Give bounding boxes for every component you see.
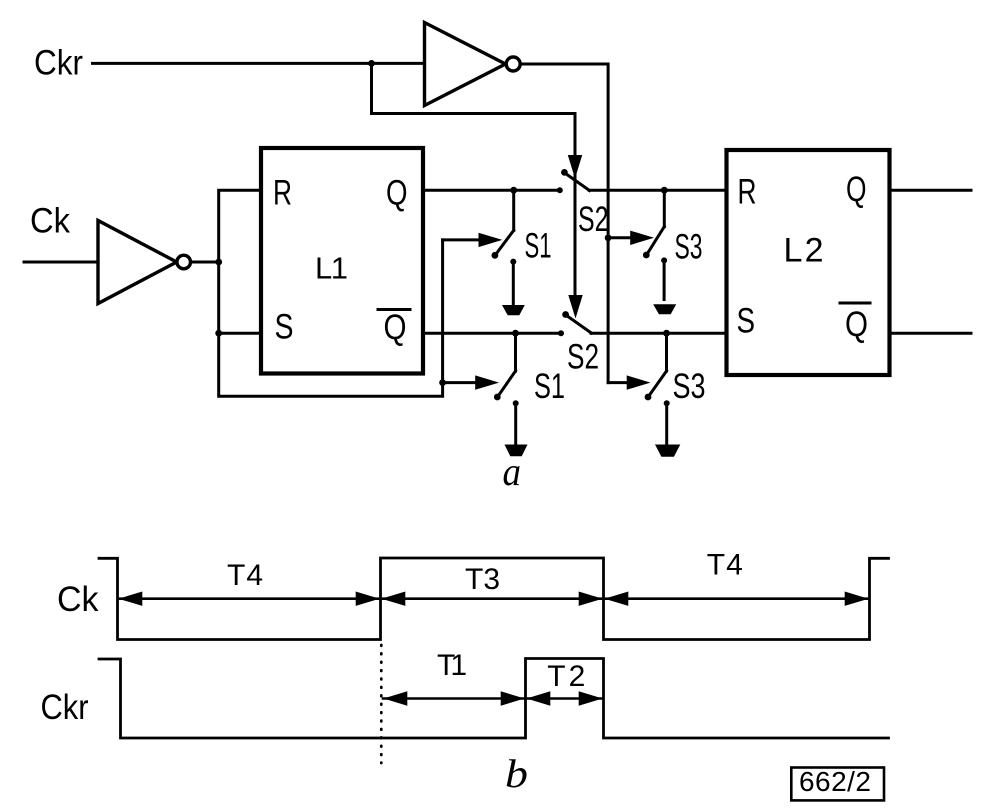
ground S3 upper (653, 304, 676, 314)
svg-text:Q: Q (384, 308, 407, 347)
svg-text:R: R (738, 173, 757, 212)
wire Q row of L1 (423, 189, 560, 192)
svg-text:S1: S1 (534, 367, 565, 406)
svg-text:T4: T4 (227, 559, 263, 592)
node S2 lower open contact (558, 330, 564, 336)
svg-text:a: a (503, 449, 522, 494)
node S2 upper open contact (557, 187, 563, 193)
node S row junction (215, 330, 222, 337)
arrow S2 upper control (568, 155, 582, 179)
arrow S3 lower control (608, 375, 650, 389)
switch S1 upper (492, 190, 517, 304)
dimension arrow T4 right (605, 592, 869, 606)
node Q row S3 junction (661, 187, 668, 194)
node Qbar row S3 junction (663, 330, 670, 337)
node U2 output junction (215, 259, 222, 266)
svg-text:Ck: Ck (57, 580, 99, 619)
arrow S3 upper control (608, 231, 654, 245)
switch S2 upper blade (561, 169, 590, 191)
label T4 right (707, 549, 743, 582)
wire Ckr control to S2 switches (372, 63, 576, 311)
switch S3 lower (645, 333, 670, 443)
dimension arrow T2 (527, 691, 603, 705)
waveform Ckr (99, 659, 889, 739)
switch S3 upper (643, 190, 667, 299)
svg-text:L1: L1 (315, 251, 348, 286)
svg-text:S2: S2 (578, 200, 609, 239)
arrow S1 lower control (443, 375, 499, 389)
label S3 upper (675, 228, 703, 267)
inverter U1 (Ckr) (425, 23, 521, 106)
svg-text:662/2: 662/2 (799, 766, 871, 797)
arrow S1 upper control (443, 233, 503, 247)
label S3 lower (673, 367, 706, 406)
svg-text:S: S (737, 302, 756, 341)
label T3 (465, 563, 500, 596)
signal label Ck (57, 580, 99, 619)
ground S1 lower (505, 445, 528, 457)
svg-text:Q: Q (845, 305, 868, 344)
wire U2 output (191, 261, 219, 264)
label T2 (547, 660, 585, 693)
wire Q row to L2 R (589, 189, 726, 192)
wire Ck input (24, 261, 98, 264)
latch L1 (261, 148, 423, 374)
label S2 upper (578, 200, 609, 239)
wire Qbar output of L2 (890, 332, 972, 335)
svg-text:T4: T4 (707, 549, 743, 582)
svg-text:S3: S3 (675, 228, 703, 267)
svg-text:Ck: Ck (30, 202, 70, 241)
svg-text:S2: S2 (567, 338, 599, 377)
wire U1 output to vertical bus (520, 64, 608, 383)
ground S3 lower (655, 445, 680, 457)
svg-text:S1: S1 (525, 227, 552, 266)
waveform Ck (99, 558, 889, 640)
wire S pin stub (219, 332, 261, 335)
svg-text:T3: T3 (465, 563, 500, 596)
wire Q output of L2 (890, 189, 972, 192)
latch L2 (727, 150, 890, 375)
dimension arrow T1 (383, 691, 525, 705)
signal label Ckr (41, 688, 89, 727)
wire R/S input bus of L1 (219, 190, 443, 396)
label T1 (437, 649, 467, 682)
node S3 upper control tap (605, 234, 612, 241)
svg-text:R: R (273, 174, 292, 213)
svg-text:Q: Q (386, 174, 408, 213)
svg-text:Ckr: Ckr (41, 688, 89, 727)
svg-text:S3: S3 (673, 367, 706, 406)
label T4 left (227, 559, 263, 592)
label b (505, 751, 528, 796)
net label Ck (30, 202, 70, 241)
svg-text:T1: T1 (437, 649, 467, 682)
arrow S2 lower control (568, 295, 582, 319)
svg-text:b: b (505, 751, 528, 796)
dimension arrow T4 left (119, 592, 380, 606)
net label Ckr (34, 44, 83, 83)
wire Qbar row to L2 S (591, 332, 727, 335)
svg-text:S: S (275, 308, 294, 347)
node S1 lower control tap (439, 379, 446, 386)
node Qbar row S1 junction (512, 330, 519, 337)
dimension arrow T3 (382, 592, 603, 606)
node Ckr branch junction (368, 60, 375, 67)
dotted reference line (380, 645, 383, 763)
inverter U2 (Ck) (98, 221, 191, 304)
node Q row S1 junction (510, 187, 517, 194)
wire Qbar row of L1 (423, 332, 561, 335)
wire Ckr input (93, 62, 425, 65)
label S1 lower (534, 367, 565, 406)
switch S2 lower blade (562, 311, 591, 333)
figure number box 662/2 (791, 766, 884, 800)
label S1 upper (525, 227, 552, 266)
ground S1 upper (502, 305, 525, 315)
label a (503, 449, 522, 494)
svg-text:Ckr: Ckr (34, 44, 83, 83)
svg-text:Q: Q (846, 170, 867, 209)
label S2 lower (567, 338, 599, 377)
switch S1 lower (494, 333, 519, 443)
